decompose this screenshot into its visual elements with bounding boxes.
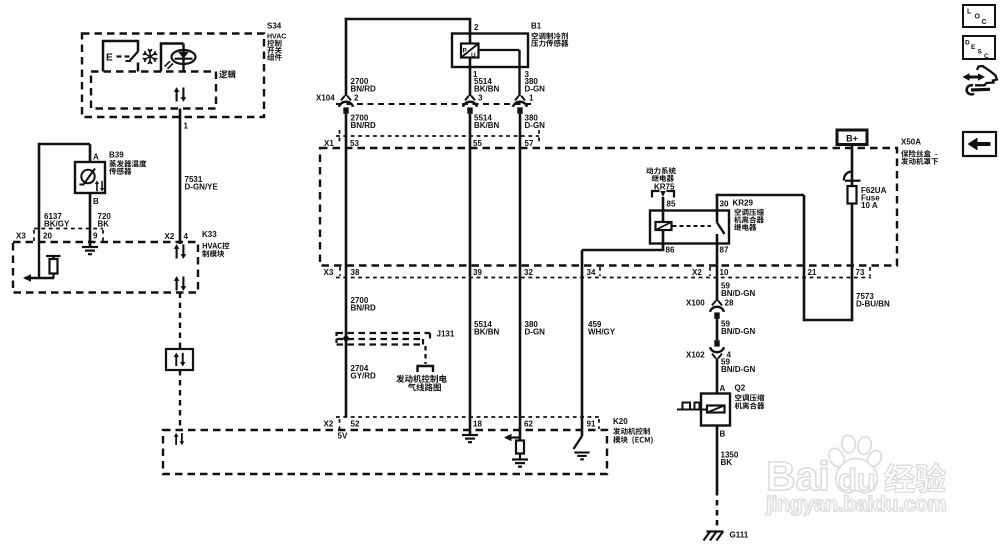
X104 connector pin1 <box>515 96 519 101</box>
svg-text:1: 1 <box>529 94 534 103</box>
X1 connector band <box>336 135 539 137</box>
svg-text:9: 9 <box>93 232 98 241</box>
wire 380 <box>519 114 522 441</box>
svg-text:C: C <box>984 53 989 60</box>
G111 ground <box>707 530 724 532</box>
svg-text:X2: X2 <box>324 419 334 428</box>
svg-text:57: 57 <box>525 139 534 148</box>
svg-text:B39: B39 <box>109 151 124 160</box>
svg-text:A: A <box>720 384 726 393</box>
svg-text:BN/D-GN: BN/D-GN <box>721 327 755 336</box>
svg-text:HVAC: HVAC <box>267 33 286 40</box>
B1 box <box>452 34 528 68</box>
svg-text:85: 85 <box>667 200 676 209</box>
K33 temp signal resistor and arrow <box>38 229 40 279</box>
svg-text:1: 1 <box>184 122 189 131</box>
svg-text:C: C <box>982 19 987 26</box>
off-page reference bracket <box>418 366 434 372</box>
wire X102 to Q2 <box>716 358 719 393</box>
svg-text:18: 18 <box>473 419 482 428</box>
svg-text:3: 3 <box>478 94 483 103</box>
svg-text:34: 34 <box>587 268 596 277</box>
svg-text:jingyan.baidu.com: jingyan.baidu.com <box>765 492 946 516</box>
logic label <box>219 70 236 78</box>
svg-text:BK/GY: BK/GY <box>44 220 70 229</box>
svg-text:X1: X1 <box>324 139 334 148</box>
svg-text:K20: K20 <box>613 417 628 426</box>
svg-text:GY/RD: GY/RD <box>351 372 377 381</box>
K33 updown arrows 2 <box>174 276 186 291</box>
svg-text:BN/RD: BN/RD <box>351 304 377 313</box>
wire B+ to fuse <box>851 145 854 187</box>
B1 P/U element <box>461 44 479 58</box>
svg-text:X50A: X50A <box>901 138 921 147</box>
A/C request switch icon <box>103 41 138 72</box>
S34 outer box <box>82 34 264 118</box>
X104 connector pin2 <box>341 96 345 101</box>
svg-text:B: B <box>720 430 726 439</box>
svg-text:E: E <box>106 53 113 64</box>
X50A fuse box outline <box>320 148 897 266</box>
svg-text:39: 39 <box>473 268 482 277</box>
svg-text:BK: BK <box>721 458 733 467</box>
svg-text:32: 32 <box>524 268 533 277</box>
svg-text:4: 4 <box>184 232 189 241</box>
adjust icon (hand with wrench) <box>975 66 997 85</box>
serial data wire dashed lower <box>179 370 181 430</box>
LOC button <box>963 5 995 27</box>
svg-text:BK/BN: BK/BN <box>474 85 500 94</box>
wire 30 to pin21 <box>716 194 804 197</box>
svg-text:X2: X2 <box>692 268 702 277</box>
serial data wire dashed upper <box>179 293 181 350</box>
svg-text:B: B <box>93 197 99 206</box>
wire S34 pin1 to K33 <box>179 109 182 229</box>
svg-text:BN/D-GN: BN/D-GN <box>721 289 755 298</box>
svg-text:53: 53 <box>350 139 359 148</box>
off-page reference label <box>396 375 447 383</box>
svg-text:D-GN: D-GN <box>525 121 546 130</box>
snowflake icon <box>143 49 158 64</box>
wire 59 mid <box>716 319 719 341</box>
DESC button <box>963 36 995 59</box>
svg-text:86: 86 <box>666 246 675 255</box>
svg-text:73: 73 <box>856 268 865 277</box>
svg-text:L: L <box>967 9 972 16</box>
K20 updown arrows <box>174 433 185 446</box>
wire 2700/2704 <box>345 114 348 417</box>
fuse F62UA 10A <box>848 186 857 204</box>
K20 ground pin18 <box>462 435 478 442</box>
svg-text:20: 20 <box>43 232 52 241</box>
Q2 box <box>701 394 730 426</box>
J131 splice <box>337 332 431 334</box>
svg-text:55: 55 <box>473 139 482 148</box>
wire B39 top <box>39 143 90 146</box>
wire B39 pinB down <box>89 193 92 247</box>
svg-text:2: 2 <box>474 23 479 32</box>
KR29 contact <box>716 194 719 223</box>
svg-text:21: 21 <box>808 268 817 277</box>
B39 box <box>75 162 105 193</box>
X104 connector pin3 <box>465 96 469 101</box>
K20 X2 connector band <box>336 416 599 418</box>
K33 ground at pin 9 <box>82 247 98 254</box>
svg-text:BK/BN: BK/BN <box>474 121 500 130</box>
svg-text:5V: 5V <box>338 432 348 441</box>
svg-text:91: 91 <box>587 419 596 428</box>
svg-text:X2: X2 <box>165 232 175 241</box>
svg-text:S34: S34 <box>267 22 282 31</box>
X102 connector <box>712 354 716 359</box>
svg-text:KR29: KR29 <box>733 199 754 208</box>
wire pin73 jumper <box>804 319 852 322</box>
svg-text:D-GN: D-GN <box>525 85 546 94</box>
svg-text:X3: X3 <box>16 232 26 241</box>
wire B1 pin2 drop <box>469 19 472 44</box>
wire K33 pin4 stub <box>179 229 182 245</box>
S34 logic updown arrows <box>174 87 186 102</box>
B+ battery feed <box>837 130 867 145</box>
svg-text:BK: BK <box>98 220 110 229</box>
svg-text:Q2: Q2 <box>735 384 746 393</box>
svg-text:D-GN/YE: D-GN/YE <box>185 183 219 192</box>
svg-text:X104: X104 <box>316 94 335 103</box>
svg-text:D-GN: D-GN <box>525 328 546 337</box>
B39 thermistor symbol <box>81 170 94 183</box>
svg-text:J131: J131 <box>437 330 455 339</box>
svg-text:30: 30 <box>720 200 729 209</box>
X104 dashed line <box>336 103 531 105</box>
serial data gateway box <box>166 349 193 370</box>
K33 X3 connector band <box>34 228 103 230</box>
svg-text:K33: K33 <box>202 230 217 239</box>
svg-text:X3: X3 <box>324 268 334 277</box>
bus clip <box>844 172 852 181</box>
Q2 coil <box>707 406 725 413</box>
X3 X2 connector band <box>336 277 871 279</box>
svg-text:10 A: 10 A <box>861 201 878 210</box>
svg-text:A: A <box>93 153 99 162</box>
X100 connector <box>712 301 716 306</box>
K20 box <box>163 430 607 474</box>
svg-text:G111: G111 <box>730 531 749 540</box>
svg-text:BK/BN: BK/BN <box>474 328 500 337</box>
svg-text:S: S <box>978 49 983 56</box>
wire 5514 <box>469 114 472 435</box>
svg-text:28: 28 <box>725 299 734 308</box>
svg-text:WH/GY: WH/GY <box>588 328 616 337</box>
svg-text:BN/D-GN: BN/D-GN <box>721 365 755 374</box>
svg-text:BN/RD: BN/RD <box>351 85 377 94</box>
wire KR75 to coil <box>662 197 665 222</box>
KR29 coil <box>656 222 672 230</box>
K20 pin62 sense arrow <box>507 436 520 438</box>
svg-text:87: 87 <box>720 246 729 255</box>
svg-text:X102: X102 <box>686 351 705 360</box>
indicator lamp icon <box>161 44 184 72</box>
S34 logic box <box>91 72 216 109</box>
svg-text:X100: X100 <box>686 299 705 308</box>
wire 86 to pin34 <box>582 249 665 252</box>
back button <box>963 132 996 156</box>
KR29 box <box>650 211 729 244</box>
wire G111 dashed <box>716 490 719 530</box>
wire B1 pin1 down <box>469 58 472 97</box>
svg-text:O: O <box>975 14 981 21</box>
svg-text:D-BU/BN: D-BU/BN <box>856 300 890 309</box>
svg-text:38: 38 <box>351 268 360 277</box>
svg-text:BN/RD: BN/RD <box>351 121 377 130</box>
K20 pin91 switch <box>581 417 584 436</box>
svg-text:B1: B1 <box>531 22 542 31</box>
svg-text:B+: B+ <box>846 134 858 144</box>
B1 signal link <box>479 49 520 51</box>
svg-text:U: U <box>471 52 476 59</box>
KR29 coil-contact link <box>673 225 712 227</box>
svg-text:D: D <box>965 40 970 47</box>
K33 box <box>13 242 198 293</box>
svg-text:2: 2 <box>354 94 359 103</box>
svg-text:52: 52 <box>351 419 360 428</box>
K33 updown arrows 1 <box>174 244 186 259</box>
KR75 contact bracket <box>652 191 660 198</box>
watermark <box>765 434 946 516</box>
svg-text:P: P <box>463 48 468 55</box>
K20 pin62 resistor <box>516 441 524 454</box>
wire fuse down <box>851 204 854 322</box>
svg-text:10: 10 <box>720 268 729 277</box>
Q2 clutch symbol <box>677 409 707 411</box>
svg-text:E: E <box>971 44 976 51</box>
wire 5V feed top <box>345 18 472 21</box>
KR75 label <box>646 167 675 174</box>
wire Q2 pinB down <box>716 426 719 491</box>
svg-text:62: 62 <box>524 419 533 428</box>
